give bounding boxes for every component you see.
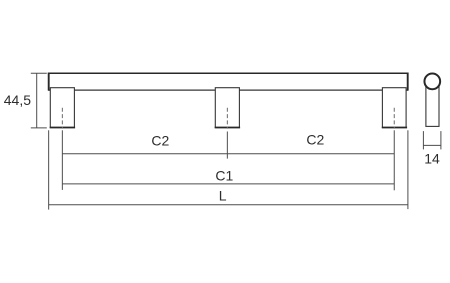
extension line from bar right end — [407, 130, 409, 209]
right post centre line (dashed) — [393, 108, 395, 129]
svg-text:C2: C2 — [306, 132, 324, 148]
svg-text:44,5: 44,5 — [4, 92, 31, 108]
handle bar (front view) top edge — [48, 72, 409, 74]
dimension line L — [49, 204, 408, 206]
handle bar left end edge — [48, 73, 50, 91]
dimension line C2 (left span) — [62, 153, 227, 155]
left post centre line (dashed) — [61, 108, 63, 129]
extension line from middle post centre — [226, 132, 228, 159]
dimension 44,5: lower extension line — [31, 127, 47, 129]
dimension line C1 — [62, 183, 394, 185]
extension line from right post centre — [393, 130, 395, 190]
middle post — [215, 88, 240, 128]
svg-text:C1: C1 — [215, 168, 233, 184]
extension line from bar left end — [48, 130, 50, 209]
svg-text:14: 14 — [424, 151, 440, 167]
right post — [382, 88, 407, 128]
middle post centre line (dashed) — [226, 108, 228, 129]
dimension 44,5: upper extension line — [31, 72, 47, 74]
side view bar end (circle) — [424, 74, 440, 90]
svg-text:L: L — [219, 188, 227, 204]
dimension 44,5: dimension line — [36, 73, 38, 128]
dimension 14: left extension line — [422, 131, 424, 149]
dimension 14: dimension line — [423, 144, 441, 146]
side view stem — [426, 84, 439, 126]
handle bar bottom edge — [48, 89, 408, 91]
left post — [50, 88, 75, 128]
svg-text:C2: C2 — [151, 133, 169, 149]
handle bar right end edge — [407, 73, 409, 91]
extension line from left post centre — [61, 130, 63, 190]
dimension line C2 (right span) — [227, 153, 394, 155]
dimension 14: right extension line — [440, 131, 442, 149]
